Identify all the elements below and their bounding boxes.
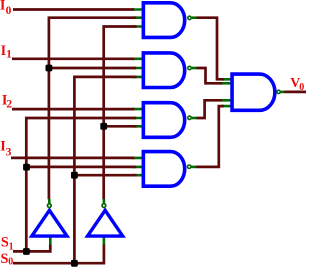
bubble of inverter U7 [102,204,106,208]
bubble of NAND U3 [188,116,191,119]
wire net S1: from S1 rail up to U3 pin 2 [26,118,136,251]
input pins of NAND U1 [132,10,143,27]
wire U3 output to U5 pin 3 [197,100,223,118]
input pin of inverter U7 [103,237,106,246]
bubble of NAND U2 [188,66,191,69]
bubble of NAND U4 [188,165,191,168]
wire U4 output to U5 pin 4 [196,106,224,167]
NAND gate U3 body [143,103,184,138]
wire branch S1 to U4 pin 2 [26,166,136,169]
output pin of NAND U5 [281,91,285,94]
input pin of inverter U6 [49,237,52,246]
input pins of NAND U2 [132,59,143,77]
inverter U6 body [32,210,67,236]
bubble of inverter U6 [47,204,51,208]
junction S0 to U4 pin 3 [71,172,78,179]
junction S0 rail tap [71,260,78,267]
wire input I2 to U3 pin 1 [12,108,135,111]
wire S1 input to inverter U6 [13,245,50,252]
wire U5 output to V0 [284,91,306,94]
input pins of NAND U3 [132,109,143,126]
wire net S0bar: inverter U7 output up to U1 pin 3 [104,27,137,200]
svg-text:0: 0 [8,257,13,268]
NAND gate U5 body [232,74,275,110]
wire U2 output to U5 pin 2 [197,68,223,83]
junction S1 to U4 pin 2 [23,164,30,171]
wire input I1 to U2 pin 1 [12,57,135,60]
junction S1 rail tap [23,248,30,255]
junction S1bar to U2 pin 2 [46,65,53,72]
wire S0 input to inverter U7 [13,245,104,264]
wire branch S1bar to U2 pin 2 [49,67,136,70]
wire input I3 to U4 pin 1 [11,157,135,160]
bubble of NAND U1 [188,16,191,19]
wire branch S0 to U4 pin 3 [74,174,136,177]
input pins of NAND U5 [222,79,232,106]
svg-text:1: 1 [6,49,12,61]
wire input I0 to U1 pin 1 [13,8,134,11]
wire U1 output to U5 pin 1 [197,18,224,80]
inverter U7 body [88,210,123,236]
NAND gate U1 body [143,3,184,38]
output pin of NAND U4 [192,166,197,169]
svg-text:2: 2 [6,99,12,111]
NAND gate U2 body [143,53,184,88]
output pin of NAND U1 [192,16,197,19]
svg-text:3: 3 [6,146,12,158]
bubble of NAND U5 [277,90,280,93]
svg-text:1: 1 [9,241,14,252]
input pins of NAND U4 [132,158,143,175]
wire net S0: from S0 rail up to U2 pin 3 [74,77,136,263]
output pin of inverter U6 [48,199,51,203]
NAND gate U4 body [143,152,184,187]
junction S0bar to U3 pin 3 [100,123,107,130]
svg-text:0: 0 [299,82,304,93]
output pin of NAND U2 [192,67,197,70]
svg-text:0: 0 [6,5,12,17]
wire net S1bar: inverter U6 output up to U1 pin 2 [49,18,136,200]
output pin of inverter U7 [103,199,106,203]
wire branch S0bar to U3 pin 3 [104,125,137,128]
output pin of NAND U3 [192,117,197,120]
